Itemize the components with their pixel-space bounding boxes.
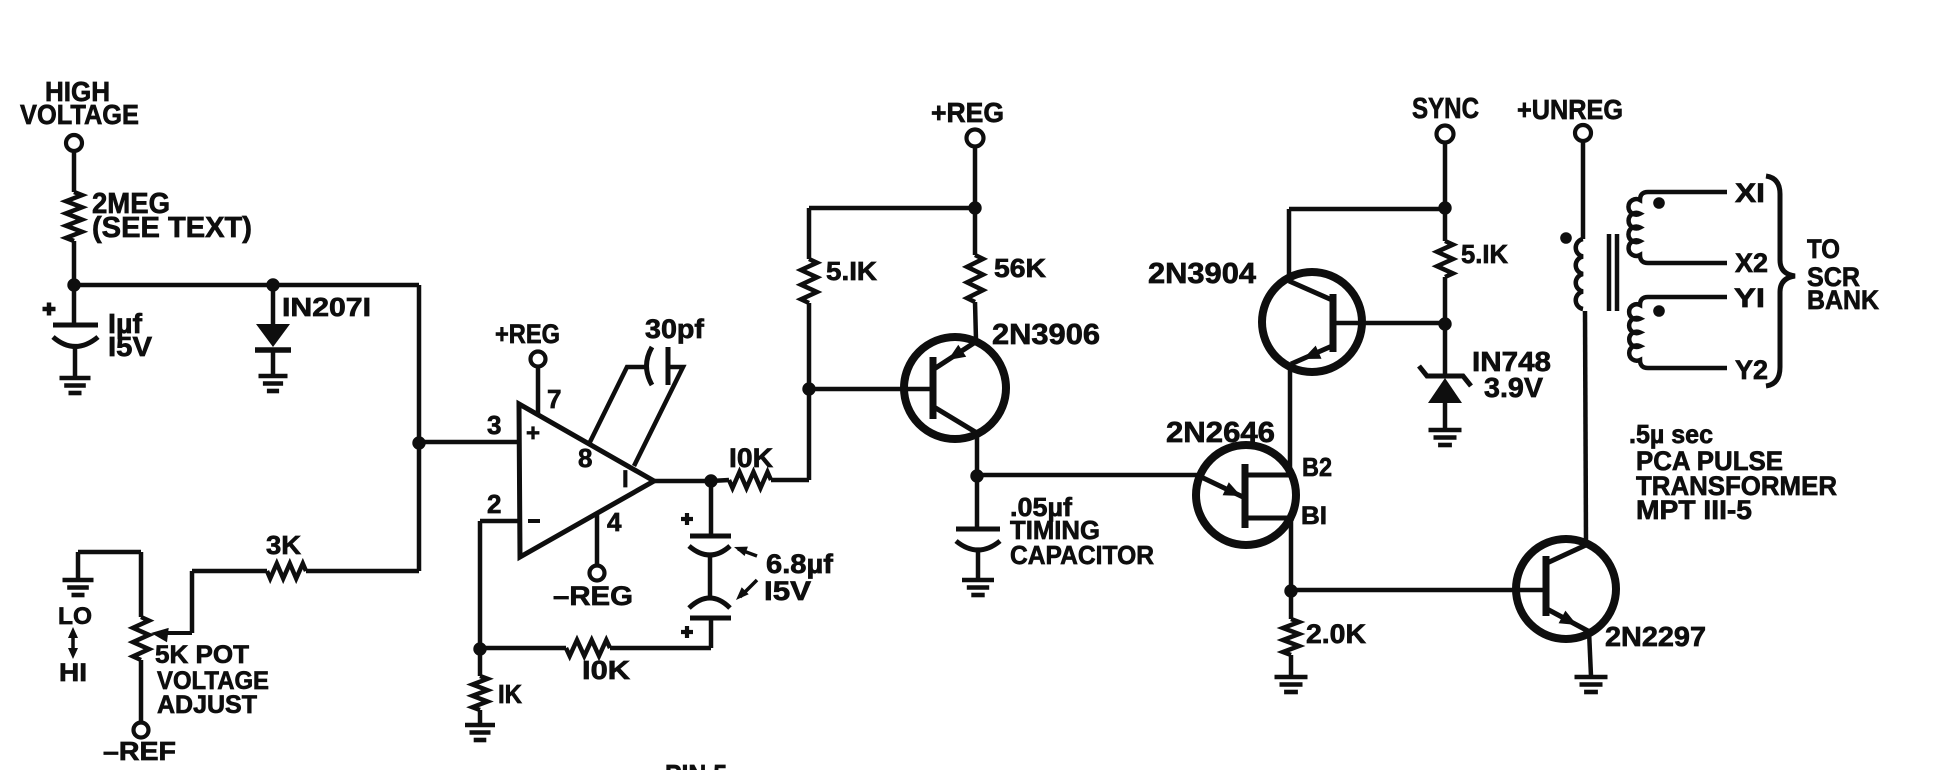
transistor 2N2297 — [1516, 539, 1706, 652]
wire — [78, 550, 141, 555]
zener diode IN748 3.9V — [1419, 324, 1551, 430]
wire — [139, 660, 144, 722]
svg-text:ADJUST: ADJUST — [157, 691, 257, 719]
svg-text:2: 2 — [487, 489, 501, 519]
svg-text:56K: 56K — [994, 253, 1046, 283]
svg-text:6.8µf: 6.8µf — [766, 549, 834, 579]
capacitor 6.8uF 15V — [681, 481, 834, 648]
svg-text:.5µ sec: .5µ sec — [1629, 419, 1713, 449]
terminal SYNC — [1412, 93, 1479, 143]
svg-text:MPT III-5: MPT III-5 — [1636, 495, 1752, 525]
svg-text:SYNC: SYNC — [1412, 93, 1479, 125]
svg-text:(SEE TEXT): (SEE TEXT) — [92, 212, 252, 244]
node pin2 junction — [473, 642, 486, 655]
ground — [1429, 430, 1462, 445]
wire rail — [1289, 207, 1445, 212]
resistor 2.0K — [1283, 591, 1367, 676]
svg-text:7: 7 — [547, 384, 561, 414]
svg-text:30pf: 30pf — [645, 314, 705, 344]
svg-text:X2: X2 — [1735, 248, 1768, 278]
label B2 — [1302, 452, 1332, 482]
label Y2 — [1735, 355, 1768, 385]
svg-text:3.9V: 3.9V — [1484, 372, 1543, 403]
wire — [771, 478, 809, 483]
wire — [190, 571, 195, 633]
wire B1 — [1289, 518, 1294, 591]
wire — [417, 285, 422, 571]
wire — [1443, 208, 1448, 241]
wire — [1443, 277, 1448, 324]
svg-text:XI: XI — [1735, 178, 1765, 208]
node base junction — [802, 382, 815, 395]
svg-text:4: 4 — [607, 507, 622, 537]
wire pin 2 — [480, 519, 519, 524]
svg-text:YI: YI — [1734, 283, 1765, 313]
potentiometer 5K — [133, 617, 269, 719]
wire emitter — [1589, 631, 1591, 676]
wire — [1581, 141, 1586, 239]
label TO SCR BANK — [1807, 234, 1879, 315]
svg-text:2N3906: 2N3906 — [992, 319, 1100, 351]
label X2 — [1735, 248, 1768, 278]
resistor 10K feedback — [566, 640, 630, 685]
wire — [807, 303, 812, 389]
svg-text:CAPACITOR: CAPACITOR — [1010, 540, 1154, 570]
wire — [419, 440, 519, 445]
capacitor 30pf — [589, 314, 705, 466]
wire B2 — [1288, 364, 1293, 475]
svg-text:–REF: –REF — [103, 736, 176, 766]
svg-text:8: 8 — [578, 443, 592, 473]
svg-text:2.0K: 2.0K — [1306, 619, 1367, 649]
svg-text:3: 3 — [487, 410, 501, 440]
resistor 5.1K — [801, 256, 877, 303]
svg-text:HI: HI — [59, 659, 87, 687]
wire collector — [1585, 311, 1586, 545]
wire — [72, 241, 77, 285]
svg-text:TO: TO — [1807, 234, 1840, 264]
resistor 3K — [266, 530, 306, 579]
wire — [480, 646, 566, 651]
svg-text:PIN 5: PIN 5 — [665, 759, 727, 770]
svg-text:I5V: I5V — [108, 331, 152, 362]
wire pin 4 — [595, 515, 600, 566]
brace to SCR bank — [1766, 176, 1795, 386]
svg-text:+: + — [526, 420, 540, 447]
wire rail — [809, 206, 975, 211]
wire base — [809, 387, 931, 392]
ground — [259, 376, 288, 391]
wire — [72, 151, 77, 192]
wire — [1443, 142, 1448, 208]
svg-text:I5V: I5V — [764, 576, 811, 606]
node Y phase dot — [1653, 305, 1665, 317]
wire — [711, 480, 729, 481]
label PIN 5 (cropped) — [665, 759, 727, 770]
svg-text:VOLTAGE: VOLTAGE — [20, 99, 139, 130]
wire — [975, 433, 980, 476]
label pulse transformer — [1629, 419, 1837, 525]
node +REG junction — [968, 201, 981, 214]
node X phase dot — [1653, 197, 1665, 209]
transformer primary — [1576, 239, 1583, 309]
resistor 1K — [473, 649, 523, 724]
label B1 — [1301, 502, 1327, 530]
wire — [977, 473, 1197, 478]
svg-text:+REG: +REG — [495, 319, 560, 349]
ground — [60, 378, 91, 393]
svg-text:–REG: –REG — [553, 581, 633, 611]
svg-text:I: I — [622, 466, 629, 493]
resistor 5.1K — [1437, 239, 1508, 277]
svg-text:BANK: BANK — [1807, 285, 1879, 315]
svg-text:2N3904: 2N3904 — [1148, 258, 1256, 290]
svg-text:2N2297: 2N2297 — [1605, 621, 1706, 652]
transistor 2N3906 — [904, 319, 1100, 439]
svg-text:I0K: I0K — [729, 443, 774, 473]
label pin 3 — [487, 410, 501, 440]
svg-text:B2: B2 — [1302, 452, 1332, 482]
resistor 56K — [967, 253, 1046, 302]
node collector junction — [970, 469, 983, 482]
wire — [139, 552, 144, 617]
wire base — [1335, 321, 1444, 326]
op-amp U1 — [519, 384, 654, 557]
resistor 2MEG — [66, 188, 252, 244]
label pin 2 — [487, 489, 501, 519]
svg-text:5.IK: 5.IK — [826, 256, 877, 286]
svg-text:5K POT: 5K POT — [155, 641, 249, 669]
node SYNC junction — [1438, 201, 1451, 214]
wire — [1291, 588, 1546, 593]
capacitor 1uF 15V — [43, 285, 153, 378]
ground — [1575, 677, 1608, 692]
terminal +REG — [495, 319, 560, 367]
svg-text:IN207I: IN207I — [282, 292, 371, 322]
wire — [306, 569, 419, 574]
wire output — [654, 479, 711, 484]
svg-text:2N2646: 2N2646 — [1166, 417, 1275, 449]
resistor 10K — [729, 443, 774, 488]
node HV junction — [67, 278, 80, 291]
terminal -REG — [553, 566, 633, 612]
node B1 junction — [1284, 584, 1297, 597]
svg-text:5.IK: 5.IK — [1461, 239, 1508, 269]
terminal +UNREG — [1517, 94, 1623, 141]
ground — [465, 725, 495, 740]
wire — [807, 389, 812, 480]
node primary phase dot — [1560, 232, 1572, 244]
svg-text:I0K: I0K — [582, 655, 630, 685]
terminal -REF — [103, 723, 176, 767]
svg-text:LO: LO — [58, 603, 92, 630]
transistor 2N3904 — [1148, 258, 1362, 372]
wire — [74, 283, 419, 288]
label LO HI adjust arrow — [58, 603, 92, 687]
svg-text:+REG: +REG — [931, 97, 1004, 128]
svg-text:IK: IK — [498, 679, 522, 709]
transistor 2N2646 — [1166, 417, 1296, 545]
svg-text:Y2: Y2 — [1735, 355, 1768, 385]
diode IN2071 — [255, 285, 371, 375]
transformer core — [1609, 234, 1617, 311]
node pin3 junction — [412, 436, 425, 449]
transformer secondary X — [1628, 192, 1727, 263]
node output junction — [704, 474, 717, 487]
wire — [973, 208, 978, 255]
svg-text:+UNREG: +UNREG — [1517, 94, 1623, 125]
wire — [807, 208, 812, 259]
node diode junction — [266, 278, 279, 291]
wire collector — [1287, 209, 1292, 281]
label Y1 — [1734, 283, 1765, 313]
ground — [63, 552, 94, 595]
wire — [610, 646, 711, 651]
wire — [973, 146, 978, 208]
transformer secondary Y — [1629, 297, 1727, 368]
svg-text:3K: 3K — [266, 530, 301, 560]
terminal HIGH VOLTAGE — [20, 76, 139, 151]
terminal +REG — [931, 97, 1004, 147]
label X1 — [1735, 178, 1765, 208]
wire — [478, 521, 483, 650]
node zener junction — [1438, 317, 1451, 330]
wire — [192, 569, 267, 574]
svg-text:BI: BI — [1301, 502, 1327, 530]
wire — [975, 302, 976, 340]
capacitor .05uF timing — [956, 476, 1154, 580]
ground — [1275, 677, 1308, 692]
wire pin 7 — [536, 366, 541, 416]
ground — [962, 580, 994, 595]
